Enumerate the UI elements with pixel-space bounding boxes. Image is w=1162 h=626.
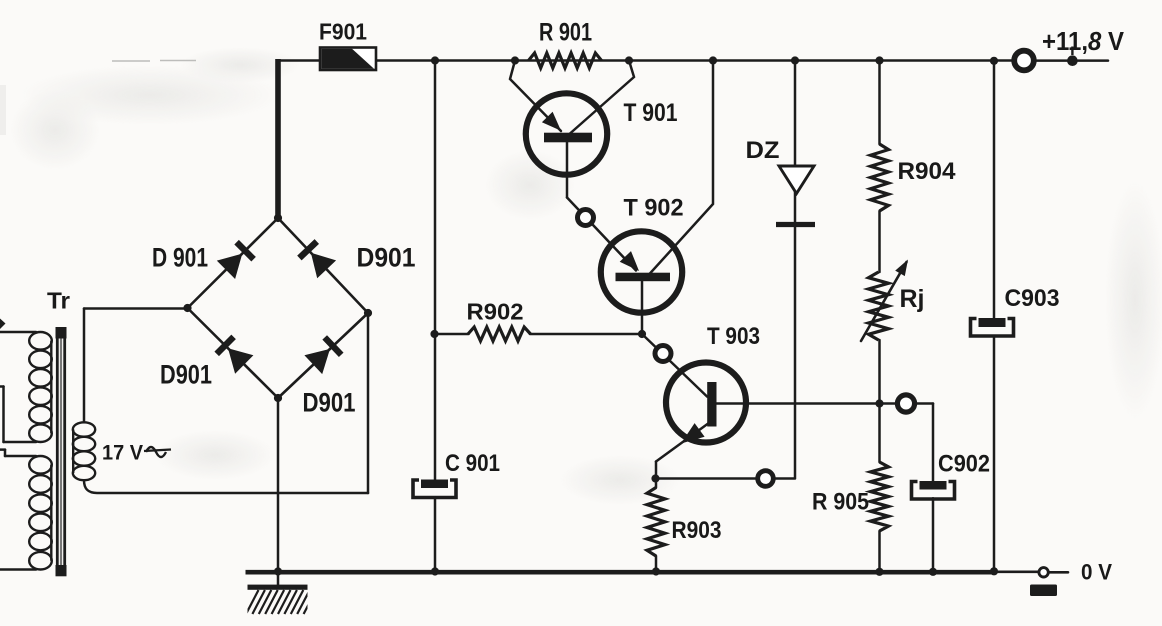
svg-text:0 V: 0 V xyxy=(1081,560,1112,585)
svg-text:F901: F901 xyxy=(319,19,367,45)
svg-text:17 V: 17 V xyxy=(102,441,144,465)
svg-text:DZ: DZ xyxy=(746,137,780,164)
svg-text:C902: C902 xyxy=(938,451,990,478)
svg-text:Rj: Rj xyxy=(900,285,925,313)
svg-text:D901: D901 xyxy=(357,243,416,273)
svg-text:R902: R902 xyxy=(467,299,524,325)
svg-text:R 905: R 905 xyxy=(812,489,869,516)
svg-text:R 901: R 901 xyxy=(539,19,592,47)
svg-text:D 901: D 901 xyxy=(152,243,208,273)
svg-text:D901: D901 xyxy=(160,360,212,390)
svg-text:D901: D901 xyxy=(303,388,356,418)
svg-text:R904: R904 xyxy=(898,158,957,185)
svg-text:T 903: T 903 xyxy=(707,323,760,350)
svg-text:+11,8 V: +11,8 V xyxy=(1042,26,1125,56)
svg-text:C 901: C 901 xyxy=(445,450,500,477)
svg-text:R903: R903 xyxy=(672,517,722,544)
svg-text:T 901: T 901 xyxy=(624,99,678,127)
svg-text:C903: C903 xyxy=(1005,285,1060,312)
svg-text:Tr: Tr xyxy=(47,288,70,314)
svg-text:T 902: T 902 xyxy=(624,195,684,222)
